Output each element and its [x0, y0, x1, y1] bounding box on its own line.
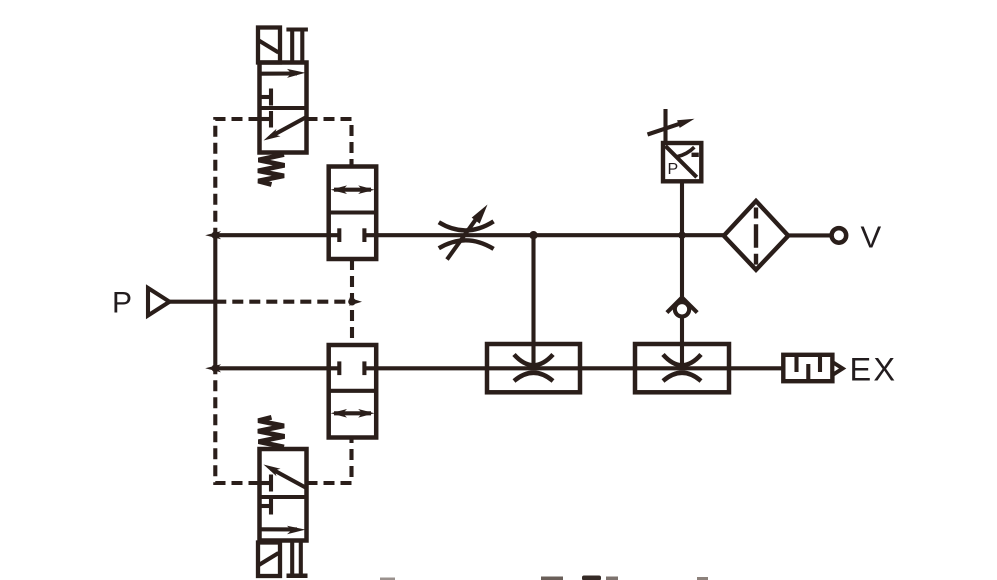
flow arrow at pilot tee [349, 298, 362, 306]
SV2 blocked port T (top box) [260, 481, 272, 485]
upper main line [215, 233, 831, 237]
wire junction down to ejector E1 [531, 235, 535, 364]
check valve [667, 235, 697, 364]
SV1 exhaust diagonal arrow [271, 118, 306, 137]
lower main line [215, 366, 783, 370]
vacuum filter F [724, 201, 789, 270]
SV2 blocked port T (bottom box) [260, 504, 272, 508]
SV2 manual override [290, 543, 294, 575]
port P triangle [148, 288, 170, 316]
ejector venturi E1 [487, 344, 580, 392]
SV2 flow arrow (bottom box) [260, 527, 298, 531]
trunk wire (solid) [213, 233, 217, 370]
PV2 double arrow [334, 411, 371, 415]
SV1 body [260, 63, 307, 153]
SV2 solenoid coil box [258, 543, 280, 577]
port V circle [832, 228, 847, 243]
PV1 blocked port ticks [337, 228, 341, 242]
pilot stub PV1 bottom to PV2 top (dashed) [350, 259, 354, 345]
throttle valve (variable restrictor) [439, 205, 494, 260]
junction arrow lower [205, 364, 221, 372]
SV1 solenoid coil box [258, 28, 280, 63]
SV1 blocked port T (bottom box) [260, 117, 272, 121]
bottom pilot dashed right + corner up to PV2 [307, 437, 352, 483]
svg-text:EX: EX [850, 352, 898, 388]
PV1 double arrow [334, 188, 371, 192]
PV2 blocked port ticks [337, 361, 341, 375]
trunk pilot dashed upper + top pilot horizontal left [215, 119, 259, 233]
SV2 exhaust diagonal arrow (top box) [271, 469, 306, 488]
pressure switch PS [648, 109, 702, 235]
silencer [783, 355, 842, 381]
SV1 flow arrow (top box) [260, 71, 298, 75]
SV2 body [260, 449, 307, 541]
top pilot dashed right + corner down to PV1 [307, 119, 352, 167]
solenoid valve SV1 (top) [258, 28, 308, 185]
wire P to trunk [170, 300, 217, 304]
trunk pilot dashed lower + bottom pilot horizontal left [215, 370, 259, 483]
solenoid valve SV2 (bottom) [258, 417, 308, 578]
SV1 blocked port T (top box) [260, 95, 272, 99]
pilot wire P tee (dashed) [215, 300, 352, 304]
SV2 return spring [258, 417, 285, 447]
ejector venturi E2 [635, 344, 729, 392]
junction arrow upper [205, 231, 221, 239]
svg-text:P: P [112, 287, 132, 320]
svg-text:P: P [668, 161, 679, 178]
caption letter tops (cut off at bottom edge) [380, 576, 708, 580]
SV1 manual override [286, 28, 308, 32]
svg-text:V: V [861, 219, 882, 254]
pilot operated valve PV2 (lower 2/2) [329, 345, 377, 438]
SV1 return spring [258, 155, 285, 185]
pilot operated valve PV1 (upper 2/2) [329, 167, 377, 260]
junction dots [212, 231, 686, 372]
